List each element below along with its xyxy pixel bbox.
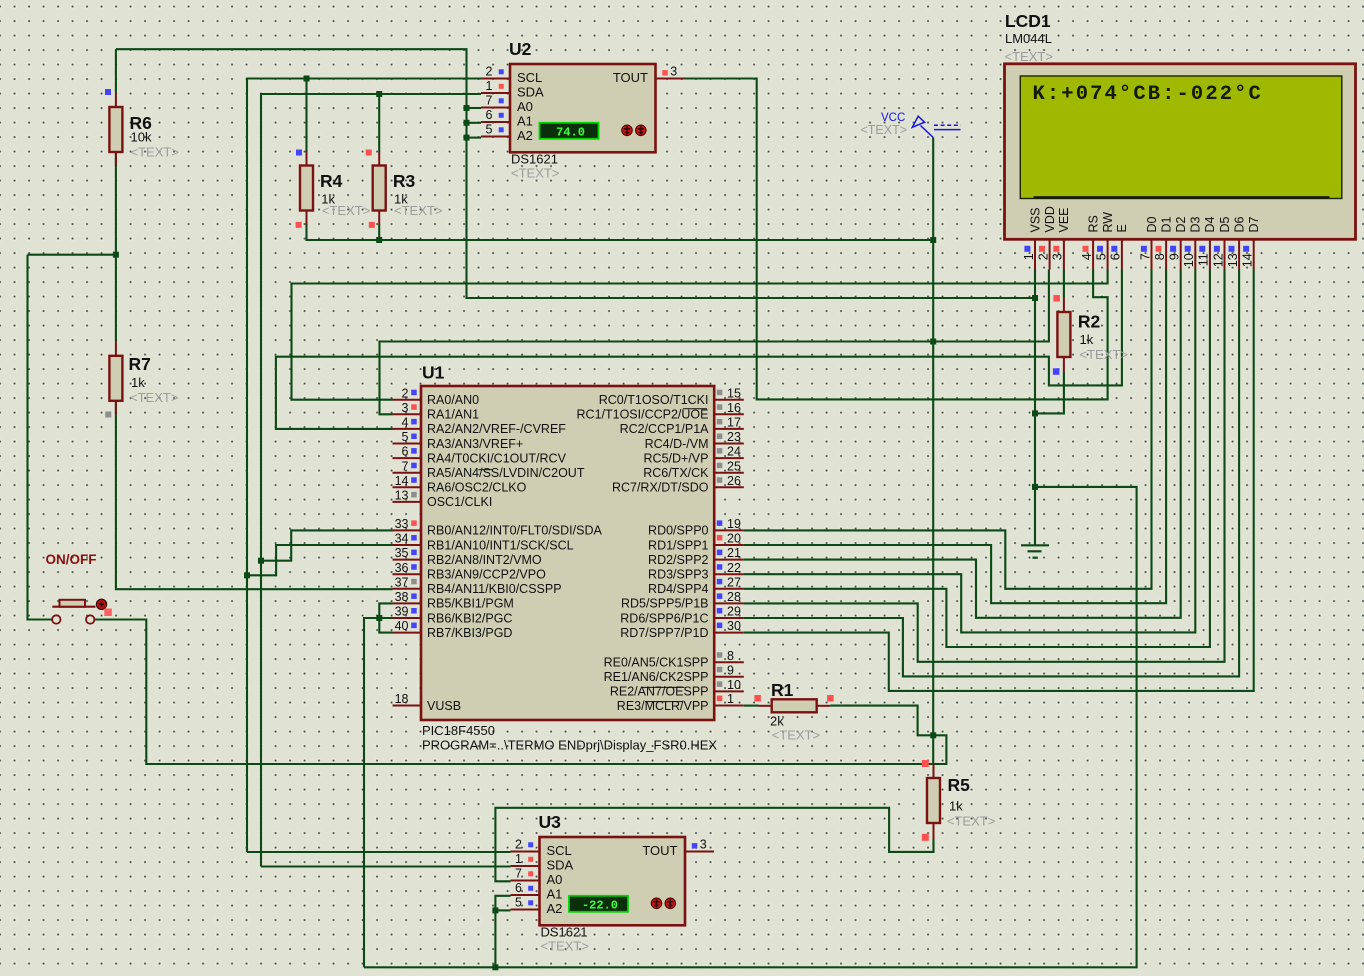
switch ON/OFF <box>52 600 96 624</box>
junction VSS R2 <box>1032 410 1038 416</box>
LED U3 right <box>665 898 676 909</box>
svg-text:2k: 2k <box>770 714 784 729</box>
square U2 pin 6 <box>499 113 504 118</box>
square R3 bottom red <box>369 222 375 228</box>
svg-text:8: 8 <box>1153 253 1167 260</box>
square U1 pin 24 <box>717 448 723 454</box>
junction R3 bottom on rail <box>376 237 382 243</box>
svg-text:1k: 1k <box>1080 332 1094 347</box>
svg-text:RC6/TX/CK: RC6/TX/CK <box>643 466 709 480</box>
pin stub LCD1 RS (pin 4) <box>1092 240 1094 270</box>
square R3 top red <box>366 150 372 156</box>
junction SDA R3 <box>376 91 382 97</box>
pin stub U3 TOUT (pin 3) <box>685 851 714 853</box>
svg-text:36: 36 <box>395 561 409 575</box>
square U1 pin 4 <box>411 419 417 425</box>
svg-text:16: 16 <box>727 401 741 415</box>
pin stub U2 A0 (pin 7) <box>481 107 510 109</box>
square U2 pin 2 <box>499 69 504 74</box>
pin stub U3 A0 (pin 7) <box>511 880 540 882</box>
square R4 top blue <box>296 150 302 156</box>
svg-text:RA2/AN2/VREF-/CVREF: RA2/AN2/VREF-/CVREF <box>427 422 566 436</box>
pin stub U2 SCL (pin 2) <box>481 78 510 80</box>
square U1 pin 37 <box>411 579 417 585</box>
square U1 pin 40 <box>411 623 417 629</box>
pin stub LCD1 VDD (pin 2) <box>1049 240 1051 270</box>
svg-text:5: 5 <box>402 430 409 444</box>
pin stub U1 RB4/AN11/KBI0/CSSPP (pin 37) <box>393 588 422 590</box>
svg-text:40: 40 <box>395 619 409 633</box>
wire bottom ground rail <box>364 487 1137 967</box>
pin stub U1 RD1/SPP1 (pin 20) <box>714 544 744 546</box>
svg-text:ON/OFF: ON/OFF <box>46 552 97 567</box>
junction U2 A1 <box>464 120 470 126</box>
svg-text:RD0/SPP0: RD0/SPP0 <box>648 524 708 538</box>
svg-text:3: 3 <box>1051 253 1065 260</box>
svg-text:<TEXT>: <TEXT> <box>947 814 995 829</box>
pin stub U2 SDA (pin 1) <box>481 92 510 94</box>
square U1 pin 7 <box>411 463 417 469</box>
svg-text:7: 7 <box>402 459 409 473</box>
svg-text:RC0/T1OSO/T1CKI: RC0/T1OSO/T1CKI <box>599 393 709 407</box>
junction U2 A2 <box>464 135 470 141</box>
svg-text:24: 24 <box>727 445 741 459</box>
square R5 top red <box>922 760 929 767</box>
square U1 pin 13 <box>411 492 417 498</box>
svg-text:RE3/MCLR/VPP: RE3/MCLR/VPP <box>617 699 709 713</box>
LCD1 screen <box>1020 76 1342 199</box>
svg-text:R5: R5 <box>948 775 971 795</box>
wire U1 RD6 to LCD D6 <box>744 270 1239 677</box>
wire U1 RA2 to LCD E <box>276 270 1122 429</box>
square LCD1 pin 12 <box>1214 246 1220 252</box>
pin stub U1 RB7/KBI3/PGD (pin 40) <box>393 632 422 634</box>
square LCD1 pin 14 <box>1243 246 1249 252</box>
square U1 pin 23 <box>717 434 723 440</box>
square U2 pin 7 <box>499 98 504 103</box>
svg-text:RA0/AN0: RA0/AN0 <box>427 393 479 407</box>
svg-text:RB3/AN9/CCP2/VPO: RB3/AN9/CCP2/VPO <box>427 568 546 582</box>
square LCD1 pin 10 <box>1185 246 1191 252</box>
svg-text:<TEXT>: <TEXT> <box>131 145 179 160</box>
wire U1 RD4 to LCD D4 <box>744 270 1210 648</box>
svg-text:1: 1 <box>1022 253 1036 260</box>
svg-text:RD6/SPP6/P1C: RD6/SPP6/P1C <box>620 611 708 625</box>
square U1 pin 36 <box>411 564 417 570</box>
pin stub U3 A2 (pin 5) <box>511 909 540 911</box>
square U3 pin 2 <box>528 842 533 847</box>
pin stub U3 SDA (pin 1) <box>511 865 540 867</box>
pin stub U1 RA6/OSC2/CLKO (pin 14) <box>393 486 422 488</box>
junction RB0-SDA <box>258 558 264 564</box>
svg-text:OSC1/CLKI: OSC1/CLKI <box>427 495 492 509</box>
LED U2 left <box>622 125 633 136</box>
wire R5 top jog <box>933 735 946 764</box>
wire U1 RD7 to LCD D7 <box>744 270 1254 691</box>
wire U1 RD0 to LCD D0 <box>744 270 1152 589</box>
pin stub U1 RC7/RX/DT/SDO (pin 26) <box>714 486 744 488</box>
svg-text:17: 17 <box>727 416 741 430</box>
svg-text:RC1/T1OSI/CCP2/UOE: RC1/T1OSI/CCP2/UOE <box>577 408 709 422</box>
svg-text:14: 14 <box>1241 253 1255 267</box>
pin stub LCD1 RW (pin 5) <box>1107 240 1109 270</box>
svg-text:<TEXT>: <TEXT> <box>394 203 442 218</box>
svg-text:-22.0: -22.0 <box>582 898 618 912</box>
square LCD1 pin 11 <box>1199 246 1205 252</box>
square U3 pin 1 <box>528 857 533 862</box>
wire VCC vertical <box>932 138 934 765</box>
svg-text:DS1621: DS1621 <box>511 152 558 167</box>
pin stub U1 RD0/SPP0 (pin 19) <box>714 529 744 531</box>
svg-text:D4: D4 <box>1203 216 1217 232</box>
svg-text:RD4/SPP4: RD4/SPP4 <box>648 582 708 596</box>
wire R7 bottom to U1 RB4 <box>116 401 393 590</box>
pin stub LCD1 VEE (pin 3) <box>1063 240 1065 270</box>
pin stub U1 RA4/T0CKI/C1OUT/RCV (pin 6) <box>393 457 422 459</box>
svg-text:1: 1 <box>515 852 522 866</box>
pin stub U3 A1 (pin 6) <box>511 894 540 896</box>
svg-text:7: 7 <box>1138 253 1152 260</box>
svg-text:30: 30 <box>727 619 741 633</box>
svg-text:DS1621: DS1621 <box>541 925 588 940</box>
wire R5 bottom to U3 A0 <box>495 808 933 882</box>
overline U1 MCLR <box>645 701 683 703</box>
square R2 top red <box>1053 295 1060 302</box>
svg-text:26: 26 <box>727 474 741 488</box>
square LCD1 pin 9 <box>1170 246 1176 252</box>
svg-text:LCD1: LCD1 <box>1005 11 1051 31</box>
svg-text:3: 3 <box>402 401 409 415</box>
svg-text:RC5/D+/VP: RC5/D+/VP <box>644 451 709 465</box>
pin stub LCD1 E (pin 6) <box>1121 240 1123 270</box>
square LCD1 pin 5 <box>1097 246 1103 252</box>
square LCD1 pin 2 <box>1039 246 1045 252</box>
svg-text:RC7/RX/DT/SDO: RC7/RX/DT/SDO <box>612 481 709 495</box>
svg-text:A1: A1 <box>517 114 533 129</box>
wire U1 RA1 to LCD VDD <box>380 270 1049 415</box>
square U1 pin 34 <box>411 535 417 541</box>
overline U1 UOE <box>683 408 707 410</box>
wire R6 bottom to R7 top <box>115 152 117 341</box>
square LCD1 pin 4 <box>1083 246 1089 252</box>
wire LCD VEE to R2 top <box>1063 270 1065 298</box>
pin stub LCD1 D6 (pin 13) <box>1238 240 1240 270</box>
svg-text:21: 21 <box>727 546 741 560</box>
junction VCC rail <box>930 237 936 243</box>
wire SCL to U3 SCL <box>247 851 511 853</box>
wire U1 RB1 to SCL net <box>247 545 393 575</box>
junction SCL R4 <box>304 76 310 82</box>
svg-text:SCL: SCL <box>517 70 542 85</box>
svg-text:27: 27 <box>727 575 741 589</box>
svg-text:RA4/T0CKI/C1OUT/RCV: RA4/T0CKI/C1OUT/RCV <box>427 451 567 465</box>
pin stub U1 RB1/AN10/INT1/SCK/SCL (pin 34) <box>393 544 422 546</box>
display U2 74.0 <box>540 123 599 140</box>
square U1 pin 25 <box>717 463 723 469</box>
pin stub U1 RC1/T1OSI/CCP2/UOE (pin 16) <box>714 413 744 415</box>
square U1 pin 26 <box>717 477 723 483</box>
square U1 pin 33 <box>411 520 417 526</box>
wire U1 RA0 to LCD RW <box>292 270 1108 400</box>
wire U2 A2 tap <box>467 137 482 139</box>
IC U3 DS1621 body <box>540 837 686 925</box>
wire U1 RB6 down to ground rail <box>364 618 393 967</box>
wire R6 top lead <box>115 49 117 93</box>
display U3 -22.0 <box>569 896 628 913</box>
svg-text:D6: D6 <box>1232 216 1246 232</box>
square R5 bottom red <box>922 834 929 841</box>
pin stub U1 RB2/AN8/INT2/VMO (pin 35) <box>393 559 422 561</box>
svg-text:RD1/SPP1: RD1/SPP1 <box>648 538 708 552</box>
svg-text:RE0/AN5/CK1SPP: RE0/AN5/CK1SPP <box>604 656 709 670</box>
square U1 pin 39 <box>411 608 417 614</box>
svg-text:<TEXT>: <TEXT> <box>130 390 178 405</box>
junction RB1-SCL <box>244 572 250 578</box>
svg-text:38: 38 <box>395 590 409 604</box>
junction VSS ground-link <box>1032 295 1038 301</box>
svg-text:E: E <box>1115 224 1129 232</box>
pin stub U1 VUSB (pin 18) <box>393 705 422 707</box>
square U1 pin 2 <box>411 390 417 396</box>
square U1 pin 3 <box>411 404 417 410</box>
square U3 pin 5 <box>528 900 533 905</box>
svg-text:RB2/AN8/INT2/VMO: RB2/AN8/INT2/VMO <box>427 553 542 567</box>
svg-text:25: 25 <box>727 459 741 473</box>
square U1 pin 19 <box>717 520 723 526</box>
svg-text:6: 6 <box>485 108 492 122</box>
svg-text:20: 20 <box>727 532 741 546</box>
svg-text:PIC18F4550: PIC18F4550 <box>422 723 495 738</box>
junction VCC R5 node <box>930 732 936 738</box>
wire SCL to R4 top <box>305 79 307 153</box>
wire U1 RB5 and RB7 to RB6 node <box>379 603 392 632</box>
IC U1 PIC18F4550 body <box>421 386 714 720</box>
resistor R3 <box>373 166 386 211</box>
square U1 pin 27 <box>717 579 723 585</box>
svg-text:SDA: SDA <box>517 85 544 100</box>
svg-text:RB5/KBI1/PGM: RB5/KBI1/PGM <box>427 597 514 611</box>
svg-text:RB1/AN10/INT1/SCK/SCL: RB1/AN10/INT1/SCK/SCL <box>427 538 574 552</box>
svg-text:R7: R7 <box>129 354 151 374</box>
pin stub U1 RB5/KBI1/PGM (pin 38) <box>393 602 422 604</box>
overline U1 SS <box>479 469 493 471</box>
wire SCL net vertical trunk to U2 SCL <box>247 79 481 853</box>
svg-text:6: 6 <box>1109 253 1123 260</box>
svg-text:74.0: 74.0 <box>556 125 585 139</box>
pin stub U1 RA5/AN4/SS/LVDIN/C2OUT (pin 7) <box>393 472 422 474</box>
pin stub LCD1 D2 (pin 9) <box>1180 240 1182 270</box>
pin stub U1 RA0/AN0 (pin 2) <box>393 399 422 401</box>
pin stub U1 RC2/CCP1/P1A (pin 17) <box>714 428 744 430</box>
pin stub U1 RD6/SPP6/P1C (pin 29) <box>714 617 744 619</box>
square R4 bottom red <box>296 222 302 228</box>
svg-text:VUSB: VUSB <box>427 699 461 713</box>
pin stub LCD1 D3 (pin 10) <box>1194 240 1196 270</box>
LCD1 screen cursor row line <box>1034 196 1330 198</box>
pin stub LCD1 D7 (pin 14) <box>1253 240 1255 270</box>
pin stub U1 RE1/AN6/CK2SPP (pin 9) <box>714 676 744 678</box>
svg-text:RB4/AN11/KBI0/CSSPP: RB4/AN11/KBI0/CSSPP <box>427 582 562 596</box>
svg-text:R4: R4 <box>320 171 343 191</box>
svg-text:RD5/SPP5/P1B: RD5/SPP5/P1B <box>621 597 709 611</box>
pin stub LCD1 D1 (pin 8) <box>1165 240 1167 270</box>
pin stub U1 RD3/SPP3 (pin 22) <box>714 573 744 575</box>
svg-text:3: 3 <box>670 65 677 79</box>
svg-text:LM044L: LM044L <box>1005 31 1052 46</box>
pin stub U1 RB0/AN12/INT0/FLT0/SDI/SDA (pin 33) <box>393 529 422 531</box>
svg-text:<TEXT>: <TEXT> <box>1005 49 1053 64</box>
square U1 pin 22 <box>717 564 723 570</box>
svg-text:VSS: VSS <box>1028 207 1042 232</box>
svg-text:<TEXT>: <TEXT> <box>1080 347 1128 362</box>
svg-text:12: 12 <box>1211 253 1225 267</box>
pin stub U1 RC6/TX/CK (pin 25) <box>714 472 744 474</box>
svg-text:10: 10 <box>727 678 741 692</box>
junction VCC on RA1-VDD wire <box>930 339 936 345</box>
svg-text:SDA: SDA <box>547 858 574 873</box>
square U3 pin 7 <box>528 871 533 876</box>
resistor R6 <box>109 107 122 152</box>
svg-text:VDD: VDD <box>1043 206 1057 232</box>
svg-text:22: 22 <box>727 561 741 575</box>
LED U3 left <box>651 898 662 909</box>
svg-text:8: 8 <box>727 649 734 663</box>
wire R2 bottom to VSS line <box>1035 372 1064 414</box>
pin stub U1 RA2/AN2/VREF-/CVREF (pin 4) <box>393 428 422 430</box>
square U2 pin 5 <box>499 127 504 132</box>
square U1 pin 14 <box>411 477 417 483</box>
wire R6 top to U2 address pins to ground net <box>116 49 1035 298</box>
square U1 pin 35 <box>411 550 417 556</box>
svg-text:RA5/AN4/SS/LVDIN/C2OUT: RA5/AN4/SS/LVDIN/C2OUT <box>427 466 585 480</box>
svg-text:1k: 1k <box>949 799 963 814</box>
junction ground link <box>1032 484 1038 490</box>
pin stub U1 RE0/AN5/CK1SPP (pin 8) <box>714 661 744 663</box>
IC U2 DS1621 body <box>510 64 656 152</box>
pin stub LCD1 D5 (pin 12) <box>1224 240 1226 270</box>
wire U3 A1 to ground rail <box>495 896 510 968</box>
svg-text:A0: A0 <box>547 872 563 887</box>
wire switch branch horizontal <box>28 254 116 256</box>
svg-text:1: 1 <box>727 692 734 706</box>
svg-text:<TEXT>: <TEXT> <box>511 166 559 181</box>
svg-text:33: 33 <box>395 517 409 531</box>
pin stub LCD1 VSS (pin 1) <box>1034 240 1036 270</box>
svg-text:A2: A2 <box>517 128 533 143</box>
wire R1 right to VCC node <box>830 706 933 736</box>
svg-text:RE1/AN6/CK2SPP: RE1/AN6/CK2SPP <box>604 670 709 684</box>
resistor R1 <box>772 699 817 712</box>
junction RB5/6/7 <box>376 615 382 621</box>
square R1 right red <box>827 695 834 702</box>
svg-text:9: 9 <box>1168 253 1182 260</box>
svg-text:RB6/KBI2/PGC: RB6/KBI2/PGC <box>427 611 512 625</box>
svg-text:RS: RS <box>1086 215 1100 232</box>
square U1 pin 8 <box>717 652 723 658</box>
svg-text:U2: U2 <box>509 39 532 59</box>
wire SDA to R3 top <box>378 94 380 152</box>
resistor R5 <box>927 778 940 823</box>
svg-text:39: 39 <box>395 605 409 619</box>
svg-text:6: 6 <box>402 445 409 459</box>
wire U1 RB0 to SDA net <box>261 530 393 560</box>
svg-text:<TEXT>: <TEXT> <box>541 939 589 954</box>
svg-text:RC4/D-/VM: RC4/D-/VM <box>645 437 709 451</box>
wire U1 RD5 to LCD D5 <box>744 270 1225 662</box>
svg-text:A2: A2 <box>547 901 563 916</box>
junction U3 A1A2 on ground rail <box>492 964 498 970</box>
svg-text:4: 4 <box>402 416 409 430</box>
junction R6-R7 switch tap <box>113 252 119 258</box>
svg-text:A1: A1 <box>547 887 563 902</box>
power terminal VCC <box>912 116 960 137</box>
square R2 bottom blue <box>1053 368 1060 375</box>
overline U1 AN7/OE <box>641 686 685 688</box>
pin stub U2 A1 (pin 6) <box>481 121 510 123</box>
resistor R7 <box>109 356 122 401</box>
svg-text:RC2/CCP1/P1A: RC2/CCP1/P1A <box>620 422 710 436</box>
wire LCD VSS to ground <box>1034 270 1036 545</box>
square U3 TOUT <box>692 843 698 849</box>
svg-text:SCL: SCL <box>547 843 572 858</box>
svg-text:PROGRAM=..\TERMO ENDprj\Displa: PROGRAM=..\TERMO ENDprj\Display_FSR0.HEX <box>422 738 717 753</box>
svg-text:37: 37 <box>395 575 409 589</box>
svg-text:D2: D2 <box>1174 216 1188 232</box>
wire U1 RE3 to R1 left <box>744 705 759 707</box>
svg-text:7: 7 <box>515 867 522 881</box>
square R7 bottom gray <box>105 412 111 418</box>
wire R4 bottom to VCC rail <box>307 224 934 240</box>
svg-text:RA1/AN1: RA1/AN1 <box>427 408 479 422</box>
pin stub U1 RA3/AN3/VREF+ (pin 5) <box>393 443 422 445</box>
svg-text:D5: D5 <box>1218 216 1232 232</box>
wire SDA net vertical trunk to U2 SDA <box>261 94 481 867</box>
square U1 pin 38 <box>411 593 417 599</box>
svg-text:U3: U3 <box>539 812 562 832</box>
wire U2 A1 tap <box>467 122 482 124</box>
svg-text:3: 3 <box>700 838 707 852</box>
svg-text:18: 18 <box>395 692 409 706</box>
svg-text:R1: R1 <box>771 680 794 700</box>
wire U3 A2 tap <box>495 909 510 911</box>
svg-text:VEE: VEE <box>1057 207 1071 232</box>
svg-text:10k: 10k <box>131 130 152 145</box>
square U2 pin 1 <box>499 84 504 89</box>
pin stub U1 RD5/SPP5/P1B (pin 28) <box>714 602 744 604</box>
ground <box>1021 545 1049 557</box>
pin stub LCD1 D0 (pin 7) <box>1151 240 1153 270</box>
wire switch right pad to R5 top <box>95 620 933 765</box>
svg-text:10: 10 <box>1182 253 1196 267</box>
svg-text:2: 2 <box>402 386 409 400</box>
svg-text:RW: RW <box>1101 212 1115 233</box>
wire U1 RD3 to LCD D3 <box>744 270 1196 633</box>
pin stub U1 OSC1/CLKI (pin 13) <box>393 501 422 503</box>
svg-text:RA6/OSC2/CLKO: RA6/OSC2/CLKO <box>427 481 527 495</box>
svg-text:U1: U1 <box>422 363 445 383</box>
svg-text:6: 6 <box>515 881 522 895</box>
pin stub U3 SCL (pin 2) <box>511 851 540 853</box>
square LCD1 pin 6 <box>1111 246 1117 252</box>
svg-text:RD7/SPP7/P1D: RD7/SPP7/P1D <box>620 626 708 640</box>
square U1 pin 15 <box>717 390 723 396</box>
square U1 pin 21 <box>717 550 723 556</box>
svg-text:RA3/AN3/VREF+: RA3/AN3/VREF+ <box>427 437 523 451</box>
svg-text:29: 29 <box>727 605 741 619</box>
square U1 pin 20 <box>717 535 723 541</box>
svg-text:RB0/AN12/INT0/FLT0/SDI/SDA: RB0/AN12/INT0/FLT0/SDI/SDA <box>427 524 602 538</box>
svg-text:A0: A0 <box>517 99 533 114</box>
